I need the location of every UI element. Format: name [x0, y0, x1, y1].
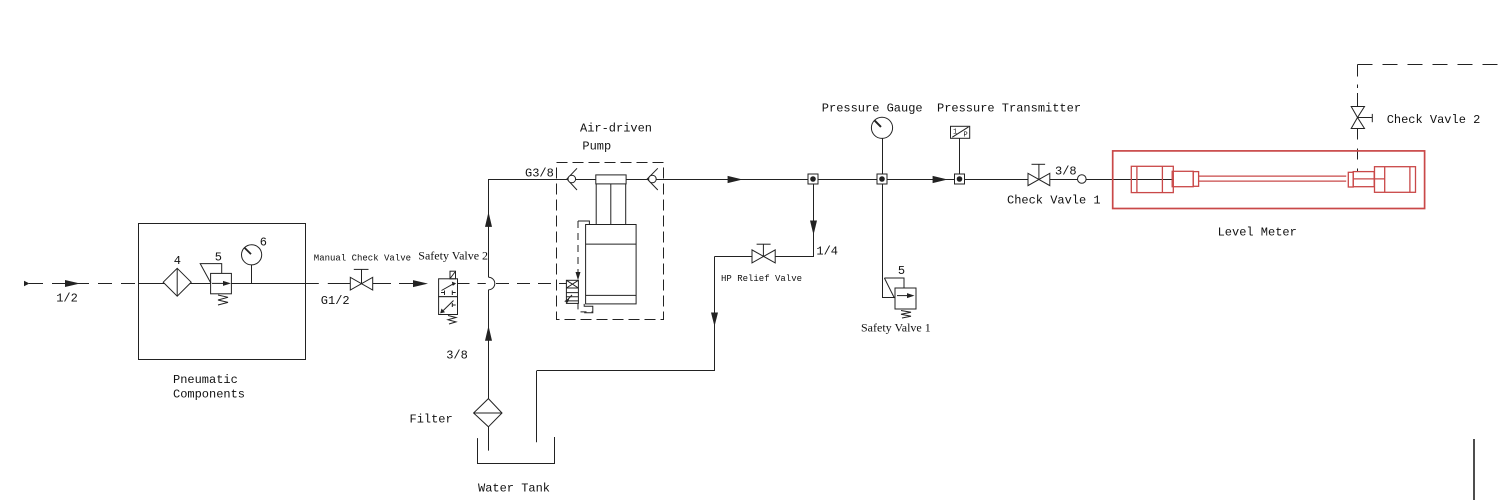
- svg-text:1/2: 1/2: [56, 292, 78, 306]
- svg-text:HP Relief Valve: HP Relief Valve: [721, 274, 802, 284]
- svg-text:3/8: 3/8: [1055, 164, 1077, 178]
- svg-text:Pneumatic: Pneumatic: [173, 373, 238, 387]
- svg-text:Pressure Gauge: Pressure Gauge: [822, 102, 923, 116]
- svg-text:G3/8: G3/8: [525, 167, 554, 181]
- svg-text:Check Vavle 1: Check Vavle 1: [1007, 193, 1101, 207]
- svg-text:Components: Components: [173, 388, 245, 402]
- svg-text:3/8: 3/8: [446, 349, 468, 363]
- svg-text:6: 6: [260, 236, 267, 250]
- svg-text:Level Meter: Level Meter: [1218, 225, 1297, 239]
- svg-text:P: P: [964, 132, 968, 140]
- svg-text:5: 5: [215, 251, 222, 265]
- svg-text:4: 4: [174, 254, 181, 268]
- svg-text:Air-driven: Air-driven: [580, 122, 652, 136]
- svg-text:5: 5: [898, 264, 905, 278]
- svg-text:Manual Check Valve: Manual Check Valve: [314, 253, 411, 263]
- svg-text:Pump: Pump: [582, 140, 611, 154]
- svg-text:G1/2: G1/2: [321, 294, 350, 308]
- svg-text:Filter: Filter: [410, 412, 453, 426]
- svg-text:1: 1: [953, 129, 957, 137]
- svg-text:1/4: 1/4: [816, 245, 838, 259]
- svg-text:Safety Valve 2: Safety Valve 2: [418, 249, 488, 263]
- svg-text:Water Tank: Water Tank: [478, 482, 550, 496]
- svg-text:Safety Valve 1: Safety Valve 1: [861, 321, 931, 335]
- svg-text:Pressure Transmitter: Pressure Transmitter: [937, 102, 1081, 116]
- svg-text:Check Vavle 2: Check Vavle 2: [1387, 113, 1481, 127]
